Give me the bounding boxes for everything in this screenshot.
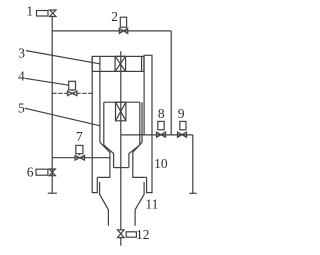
svg-text:7: 7 bbox=[76, 129, 83, 144]
center shaft line bbox=[120, 51, 122, 230]
valve V7 bbox=[75, 155, 84, 160]
svg-text:8: 8 bbox=[158, 106, 165, 121]
svg-text:10: 10 bbox=[154, 156, 168, 171]
valve V8 actuator rectangle bbox=[158, 121, 164, 129]
wire pipe to valves 8 and 9 bbox=[121, 134, 193, 136]
inner draft tube left wall bbox=[104, 102, 114, 167]
svg-text:2: 2 bbox=[111, 9, 118, 24]
leader line 4 bbox=[25, 78, 69, 85]
svg-text:5: 5 bbox=[18, 101, 25, 116]
svg-text:12: 12 bbox=[136, 227, 150, 242]
svg-text:4: 4 bbox=[18, 68, 25, 83]
valve V1 bbox=[50, 10, 56, 17]
valve V2 bbox=[119, 28, 127, 33]
wire feed pipe vertical bbox=[51, 17, 53, 194]
inner X-box bbox=[116, 102, 126, 121]
cap inner line right bbox=[141, 56, 143, 71]
svg-text:6: 6 bbox=[27, 165, 34, 180]
valve V12 bbox=[118, 230, 125, 238]
svg-text:9: 9 bbox=[178, 106, 185, 121]
leader line 5 bbox=[25, 108, 100, 126]
svg-text:11: 11 bbox=[145, 196, 158, 211]
valve V12 actuator rectangle bbox=[126, 232, 136, 237]
svg-text:3: 3 bbox=[18, 45, 25, 60]
wire right downcomer bbox=[170, 31, 172, 135]
inner draft tube mouth bbox=[114, 167, 129, 169]
wire valve 9 downcomer bbox=[192, 135, 194, 193]
valve V7 actuator rectangle bbox=[76, 145, 83, 153]
valve V9 actuator rectangle bbox=[180, 121, 186, 129]
vessel body right wall and funnel bbox=[133, 102, 147, 177]
mid liner left wall and bottom funnel bbox=[100, 182, 109, 226]
inner draft tube top edge bbox=[104, 101, 140, 103]
wire pipe to valve 7 bbox=[52, 157, 110, 159]
cap X-box bbox=[115, 56, 126, 71]
vessel outer jacket right wall with chimney bbox=[144, 55, 152, 192]
pipe end bar right bbox=[189, 192, 196, 194]
mid liner right wall and bottom funnel bbox=[135, 182, 144, 226]
valve V9 bbox=[178, 132, 187, 137]
vessel top cap bbox=[92, 56, 144, 71]
valve V4 bbox=[68, 91, 77, 96]
valve V6 bbox=[49, 169, 55, 176]
valve V8 bbox=[157, 132, 166, 137]
wire top pipe horizontal bbox=[52, 30, 171, 32]
valve V1 actuator rectangle bbox=[37, 11, 49, 17]
wire stub below valve 12 bbox=[120, 238, 122, 246]
leader line 3 bbox=[26, 51, 100, 64]
svg-text:1: 1 bbox=[26, 4, 33, 19]
inner draft tube right wall bbox=[129, 102, 140, 167]
dashed sample pipe bbox=[52, 92, 92, 94]
vessel outer jacket left wall bbox=[92, 56, 97, 192]
valve V4 actuator rectangle bbox=[69, 81, 76, 90]
valve V6 actuator rectangle bbox=[36, 169, 48, 175]
valve V2 actuator rectangle bbox=[120, 17, 126, 27]
vessel body left wall and funnel bbox=[97, 56, 110, 177]
pipe end bar bbox=[48, 192, 57, 194]
